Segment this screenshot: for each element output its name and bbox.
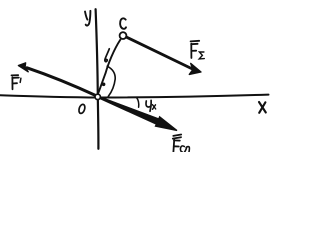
origin node O circle [95, 94, 100, 99]
angle arc phi_x [137, 98, 139, 108]
wire: segment l from O to C [98, 40, 121, 95]
vector F_sigma arrowhead [189, 63, 201, 74]
label F_sigma [191, 41, 205, 59]
y axis label [85, 11, 90, 26]
label F_ce (bottom, partially cut) [173, 135, 190, 153]
y-axis [96, 9, 99, 149]
vector F' arrowhead [18, 63, 28, 72]
label O [78, 104, 86, 115]
vector F_sigma line [127, 37, 194, 69]
label F' [12, 75, 21, 89]
right-angle arc at O [107, 66, 115, 96]
right-angle dot [102, 83, 106, 87]
x axis label [259, 102, 266, 113]
vector F_ce arrowhead [155, 117, 177, 131]
x-axis [0, 95, 269, 98]
label c [120, 18, 126, 28]
vector F_ce body [97, 96, 158, 125]
label l [105, 49, 109, 62]
vector F' line [27, 68, 97, 96]
label phi_x [146, 100, 156, 111]
node C circle [120, 32, 127, 39]
